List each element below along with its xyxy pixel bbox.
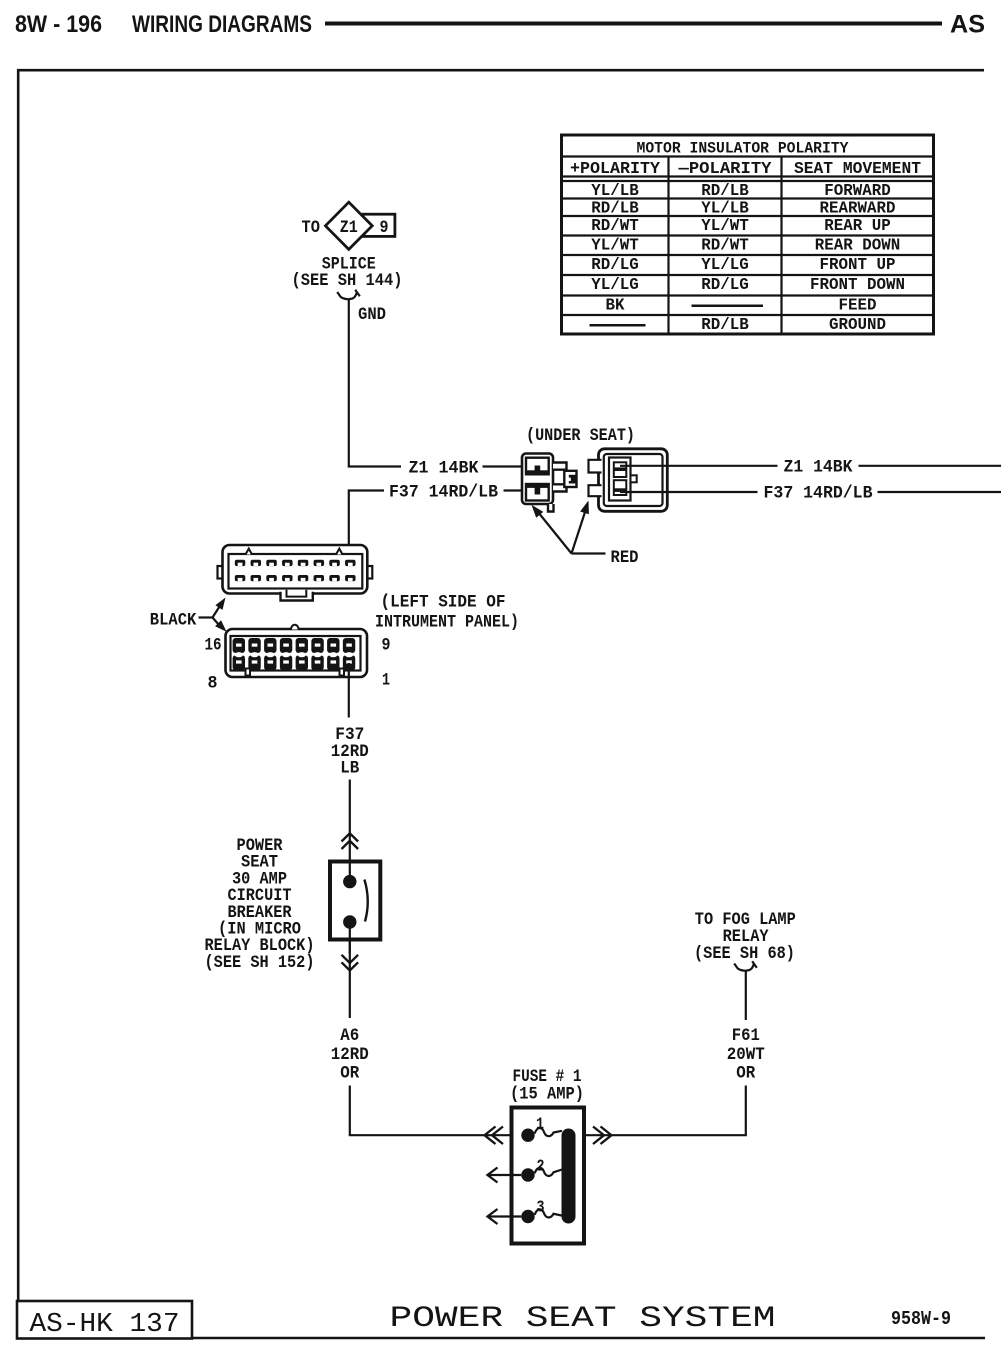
connector: instrument panel upper half (218, 545, 373, 601)
svg-text:16: 16 (205, 636, 222, 656)
svg-text:TO: TO (302, 218, 321, 238)
fuse terminal 3 (488, 1198, 562, 1225)
svg-text:BK: BK (606, 296, 625, 315)
svg-text:RD/LB: RD/LB (701, 315, 749, 334)
svg-text:FRONT UP: FRONT UP (820, 255, 896, 274)
wire Z1 14BK into connector (483, 465, 525, 467)
svg-text:YL/WT: YL/WT (591, 236, 639, 255)
breaker contact arc (364, 880, 367, 922)
svg-text:8W - 196: 8W - 196 (15, 11, 102, 38)
svg-text:FEED: FEED (839, 296, 877, 315)
wire F37 12RD LB out of connector (348, 663, 350, 718)
splice pin box 9 (363, 214, 395, 238)
connector: instrument panel lower half (226, 625, 368, 677)
svg-text:9: 9 (382, 636, 391, 656)
svg-text:RD/WT: RD/WT (591, 216, 639, 235)
svg-text:2: 2 (537, 1157, 545, 1176)
breaker terminal dot (bottom) (343, 915, 356, 928)
svg-text:OR: OR (736, 1064, 755, 1084)
splice symbol Z1 (325, 202, 372, 249)
motor insulator polarity table (562, 135, 934, 334)
svg-text:OR: OR (340, 1064, 359, 1084)
svg-text:REAR DOWN: REAR DOWN (815, 236, 901, 255)
label A6 12RD OR (331, 1026, 369, 1084)
svg-text:8: 8 (208, 674, 218, 694)
svg-text:WIRING DIAGRAMS: WIRING DIAGRAMS (132, 11, 312, 38)
svg-text:REARWARD: REARWARD (820, 199, 896, 218)
svg-text:BLACK: BLACK (150, 611, 197, 631)
fuse bus bar (562, 1129, 576, 1224)
svg-text:1: 1 (536, 1115, 544, 1134)
svg-text:RD/LB: RD/LB (591, 199, 639, 218)
label POWER SEAT 30 AMP CIRCUIT BREAKER (IN MICRO RELAY BLOCK) (SEE SH 152) (205, 836, 315, 973)
svg-text:AS: AS (950, 11, 985, 39)
wire Z1 14BK to page edge (859, 465, 1001, 467)
svg-text:A6: A6 (340, 1026, 359, 1046)
breaker wire stub out (349, 928, 351, 953)
inline connector chevrons (down) (342, 955, 359, 971)
label FUSE # 1 (15 AMP) (510, 1067, 584, 1105)
svg-text:(LEFT SIDE OF: (LEFT SIDE OF (381, 593, 506, 613)
svg-text:YL/LG: YL/LG (701, 255, 749, 274)
svg-text:LB: LB (340, 759, 359, 779)
label F61 20WT OR (727, 1026, 765, 1084)
fuse terminal 1 (521, 1115, 562, 1142)
svg-text:(SEE SH 144): (SEE SH 144) (292, 271, 403, 291)
wire A6 12RD OR from breaker (349, 940, 351, 1019)
svg-text:+POLARITY: +POLARITY (570, 159, 660, 178)
wire F37 12RD LB to breaker (349, 780, 351, 862)
label RED with pointer arrows (532, 501, 639, 569)
svg-text:MOTOR INSULATOR POLARITY: MOTOR INSULATOR POLARITY (637, 140, 850, 158)
label BLACK with pointer arrows (150, 598, 227, 632)
svg-text:Z1 14BK: Z1 14BK (409, 459, 479, 479)
svg-text:RD/LG: RD/LG (591, 255, 639, 274)
svg-text:Z1 14BK: Z1 14BK (784, 458, 853, 478)
svg-text:958W-9: 958W-9 (891, 1308, 951, 1330)
svg-text:FRONT DOWN: FRONT DOWN (810, 275, 905, 294)
svg-text:F37 14RD/LB: F37 14RD/LB (764, 484, 873, 504)
svg-text:Z1: Z1 (340, 218, 358, 238)
breaker wire stub in (349, 862, 351, 879)
label F37 12RD LB (331, 725, 369, 779)
circuit breaker box (330, 862, 380, 940)
wire F61 20WT OR from fuse (584, 1086, 746, 1136)
wire F37 14RD/LB (right segment) (620, 491, 758, 493)
wire F61 to fog lamp relay (745, 970, 747, 1020)
connector: under-seat female half (589, 449, 668, 512)
svg-text:FORWARD: FORWARD (824, 181, 891, 200)
svg-text:YL/WT: YL/WT (701, 216, 749, 235)
svg-text:YL/LB: YL/LB (701, 199, 749, 218)
wire F37 14RD/LB tee from main run (349, 491, 384, 564)
inline connector chevrons (up) (342, 833, 359, 849)
svg-text:INTRUMENT PANEL): INTRUMENT PANEL) (375, 613, 519, 633)
svg-text:(UNDER SEAT): (UNDER SEAT) (526, 426, 635, 446)
svg-text:REAR UP: REAR UP (824, 216, 891, 235)
breaker terminal dot (top) (343, 875, 356, 888)
wire A6 12RD OR to fuse block (350, 1086, 521, 1136)
label (LEFT SIDE OF INTRUMENT PANEL) (375, 593, 519, 633)
inline connector chevrons (right) (593, 1127, 612, 1145)
fuse block box (512, 1108, 585, 1244)
svg-text:AS-HK 137: AS-HK 137 (30, 1310, 180, 1340)
svg-text:9: 9 (380, 218, 389, 238)
svg-text:RD/LG: RD/LG (701, 275, 749, 294)
svg-text:(SEE SH 68): (SEE SH 68) (694, 944, 795, 964)
svg-text:YL/LB: YL/LB (591, 181, 639, 200)
header rule (325, 22, 942, 26)
svg-text:YL/LG: YL/LG (591, 275, 639, 294)
wire Z1 14BK (right segment) (620, 465, 778, 467)
svg-text:RD/LB: RD/LB (701, 181, 749, 200)
fuse terminal 2 (488, 1157, 563, 1183)
svg-text:—POLARITY: —POLARITY (677, 159, 771, 178)
svg-text:1: 1 (382, 671, 390, 691)
label TO FOG LAMP RELAY (SEE SH 68) (694, 910, 796, 964)
svg-text:(15 AMP): (15 AMP) (510, 1085, 584, 1105)
svg-text:RD/WT: RD/WT (701, 236, 749, 255)
inline connector chevrons (left) (485, 1127, 504, 1145)
fog lamp relay wire hook (734, 961, 757, 970)
wire F37 14RD/LB into connector (504, 489, 525, 491)
svg-text:F61: F61 (732, 1026, 760, 1046)
label SPLICE (SEE SH 144) (292, 255, 403, 292)
wire F37 14RD/LB to page edge (878, 491, 1001, 493)
svg-text:POWER SEAT SYSTEM: POWER SEAT SYSTEM (390, 1302, 776, 1336)
svg-text:F37 14RD/LB: F37 14RD/LB (389, 483, 498, 503)
svg-text:3: 3 (537, 1198, 545, 1217)
svg-text:12RD: 12RD (331, 1045, 369, 1065)
svg-text:RED: RED (611, 548, 639, 568)
connector: under-seat male half (522, 454, 577, 512)
wire Z1 14BK from splice (vertical + corner) (349, 299, 401, 467)
svg-text:(SEE SH 152): (SEE SH 152) (205, 953, 315, 973)
ground wire hook (337, 290, 360, 299)
svg-text:GND: GND (358, 305, 386, 325)
title box AS-HK 137 (17, 1301, 192, 1340)
svg-text:GROUND: GROUND (829, 315, 886, 334)
svg-text:20WT: 20WT (727, 1045, 765, 1065)
svg-text:SEAT MOVEMENT: SEAT MOVEMENT (794, 159, 921, 178)
